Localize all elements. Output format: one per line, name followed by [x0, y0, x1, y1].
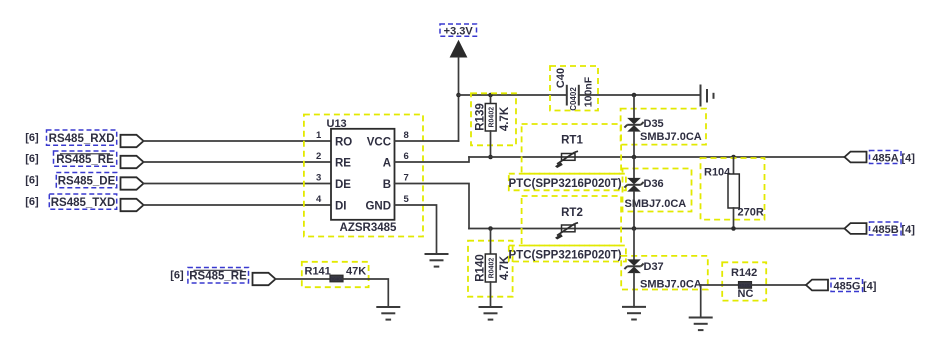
svg-text:4.7K: 4.7K	[499, 255, 511, 280]
wire B line to R140	[490, 229, 492, 255]
svg-text:RS485_RXD: RS485_RXD	[49, 133, 115, 145]
ground below U13 pin 5	[425, 254, 449, 267]
wire RS485_RXD to U13 pin 1	[144, 140, 332, 142]
resistor R140 body	[485, 254, 496, 282]
TVS diode D36 highlight box	[623, 169, 692, 212]
node 485B net label	[870, 222, 902, 236]
wire A line to port 485A	[469, 156, 845, 158]
resistor R141 body	[330, 275, 343, 282]
junction R139 top	[488, 93, 493, 98]
svg-text:485G: 485G	[834, 281, 861, 293]
svg-text:RS485_RE: RS485_RE	[56, 154, 114, 166]
node 485G net label	[831, 279, 863, 293]
PTC RT1 label box	[509, 174, 626, 191]
svg-text:[6]: [6]	[170, 270, 184, 282]
svg-text:A: A	[383, 158, 391, 170]
svg-text:6: 6	[404, 151, 409, 162]
wire R142 to port 485G	[752, 284, 807, 286]
svg-text:47K: 47K	[346, 266, 366, 278]
svg-text:PTC(SPP3216P020T): PTC(SPP3216P020T)	[509, 250, 622, 262]
op-amp U13 highlight box	[304, 115, 423, 237]
wire rail to R139	[490, 95, 492, 104]
wire R141 to ground	[343, 279, 388, 307]
svg-text:4.7K: 4.7K	[499, 106, 511, 131]
wire U13 pin 5 GND	[395, 205, 437, 254]
PTC thermistor RT2 symbol	[555, 223, 578, 240]
resistor R139 body	[485, 104, 496, 132]
junction D36/D37 on B line	[632, 226, 637, 231]
TVS diode D36 symbol	[624, 178, 643, 192]
svg-text:R139: R139	[475, 103, 487, 131]
wire U13 pin 8 VCC	[395, 140, 459, 142]
PTC RT2 label box	[509, 246, 626, 262]
svg-text:AZSR3485: AZSR3485	[340, 222, 397, 234]
capacitor C40 plates	[567, 85, 579, 106]
svg-text:[6]: [6]	[25, 153, 39, 165]
svg-text:RE: RE	[335, 158, 351, 170]
port RS485_RXD connector pentagon	[121, 135, 144, 147]
node RS485_DE net label	[56, 173, 116, 188]
svg-text:485A: 485A	[872, 153, 898, 165]
node 485A net label	[870, 151, 902, 165]
PTC RT1 highlight box	[522, 124, 622, 174]
svg-text:RS485_TXD: RS485_TXD	[51, 197, 116, 209]
PTC RT2 highlight box	[522, 196, 622, 246]
svg-text:7: 7	[404, 173, 409, 184]
svg-text:GND: GND	[365, 201, 391, 213]
junction R140 top on B line	[488, 226, 493, 231]
svg-text:5: 5	[404, 194, 410, 205]
svg-text:C40: C40	[555, 68, 567, 88]
node RS485_TXD net label	[49, 194, 116, 209]
power +3.3V net label	[440, 24, 477, 37]
svg-text:[6]: [6]	[25, 132, 39, 144]
svg-text:270R: 270R	[738, 207, 764, 219]
svg-text:+3.3V: +3.3V	[444, 25, 474, 37]
svg-text:D35: D35	[644, 118, 664, 130]
TVS diode D35 highlight box	[621, 109, 706, 145]
svg-text:R140: R140	[475, 254, 487, 282]
wire D36 to B line	[633, 192, 635, 229]
wire R140 to ground	[490, 282, 492, 307]
power +3.3V bar triangle	[450, 40, 468, 58]
TVS diode D35 symbol	[624, 118, 643, 132]
svg-text:R0402: R0402	[330, 276, 344, 281]
svg-text:485B: 485B	[872, 224, 898, 236]
svg-text:VCC: VCC	[367, 137, 391, 149]
port RS485_RE (pulldown) connector pentagon	[253, 273, 276, 285]
port 485B connector pentagon	[845, 223, 867, 234]
svg-text:3: 3	[316, 173, 321, 184]
svg-text:RT2: RT2	[561, 207, 583, 219]
svg-text:DI: DI	[335, 201, 347, 213]
svg-text:NC: NC	[738, 288, 754, 300]
TVS diode D37 symbol	[624, 259, 643, 273]
resistor R104 highlight box	[701, 158, 765, 220]
junction R104 bottom on B line	[731, 226, 736, 231]
svg-text:D37: D37	[644, 261, 664, 273]
ground (rotated right) at rail end	[701, 85, 714, 107]
TVS diode D37 highlight box	[621, 256, 708, 290]
IC U13 AZSR3485 body	[331, 129, 395, 220]
wire B line to port 485B	[469, 228, 845, 230]
node RS485_RE (pulldown) net label	[188, 268, 249, 284]
ground below 485G net	[689, 318, 713, 331]
junction D35/D36 on A line	[632, 155, 637, 160]
port 485A connector pentagon	[845, 152, 867, 163]
wire R104 to B line	[733, 208, 735, 229]
svg-text:U13: U13	[327, 118, 347, 130]
junction R104 top on A line	[731, 155, 736, 160]
wire D37 to ground	[633, 273, 635, 307]
port 485G connector pentagon	[806, 280, 828, 291]
node RS485_RE net label (active-low overline)	[54, 151, 117, 166]
wire RS485_RE to R141	[276, 278, 331, 280]
junction +3.3V rail tap	[456, 93, 461, 98]
resistor R142 highlight box	[722, 262, 766, 300]
resistor R104 body	[728, 174, 739, 208]
resistor R139 highlight box	[471, 93, 516, 145]
resistor R141 highlight box	[302, 262, 369, 287]
wire RS485_TXD to U13 pin 4	[144, 204, 332, 206]
svg-text:1: 1	[316, 130, 322, 141]
svg-text:[6]: [6]	[25, 175, 39, 187]
svg-text:SMBJ7.0CA: SMBJ7.0CA	[640, 279, 702, 291]
resistor R140 highlight box	[468, 241, 513, 297]
svg-text:[4]: [4]	[902, 224, 916, 236]
svg-text:RT1: RT1	[561, 135, 583, 147]
svg-text:DE: DE	[335, 179, 351, 191]
wire U13 pin 7 B	[395, 184, 470, 229]
wire 3.3V rail right segment to ground	[579, 94, 701, 96]
wire A line to D36	[633, 157, 635, 178]
ground below R141	[376, 307, 400, 320]
svg-text:[6]: [6]	[25, 196, 39, 208]
wire 3.3V rail left segment	[459, 94, 567, 96]
capacitor C40 highlight box	[550, 66, 598, 111]
node RS485_RXD net label	[47, 130, 117, 145]
svg-text:R0402: R0402	[488, 258, 495, 279]
svg-text:RO: RO	[335, 137, 352, 149]
svg-text:4: 4	[316, 194, 322, 205]
svg-text:100nF: 100nF	[583, 76, 595, 107]
wire A line to R104	[733, 157, 735, 174]
junction R139 bottom on A line	[488, 155, 493, 160]
ground below D37	[622, 307, 646, 320]
wire B line to D37	[633, 229, 635, 260]
wire 485G ground corner to R142	[701, 284, 739, 286]
wire rail to D35	[633, 95, 635, 118]
junction D35 top	[632, 93, 637, 98]
svg-text:[4]: [4]	[863, 281, 877, 293]
svg-text:B: B	[383, 179, 391, 191]
svg-text:R142: R142	[731, 267, 757, 279]
wire U13 pin 6 A	[395, 157, 470, 162]
wire +3.3V vertical to VCC	[458, 58, 460, 142]
wire RS485_RE to U13 pin 2	[144, 161, 332, 163]
svg-text:D36: D36	[644, 178, 664, 190]
resistor R142 body	[739, 282, 752, 289]
svg-text:[4]: [4]	[902, 153, 916, 165]
port RS485_RE connector pentagon	[121, 156, 144, 168]
wire RS485_DE to U13 pin 3	[144, 183, 332, 185]
port RS485_TXD connector pentagon	[121, 199, 144, 211]
svg-text:R104: R104	[704, 167, 731, 179]
ground below R140	[479, 307, 503, 320]
port RS485_DE connector pentagon	[121, 177, 144, 189]
svg-text:8: 8	[404, 130, 409, 141]
svg-text:R0402: R0402	[488, 107, 495, 128]
svg-text:2: 2	[316, 151, 321, 162]
wire R139 to A line	[490, 131, 492, 157]
svg-text:SMBJ7.0CA: SMBJ7.0CA	[640, 131, 702, 143]
svg-text:RS485_DE: RS485_DE	[58, 176, 116, 188]
PTC thermistor RT1 symbol	[555, 151, 578, 168]
wire 485G net to ground	[700, 285, 702, 318]
wire D35 to A line	[633, 132, 635, 157]
svg-text:PTC(SPP3216P020T): PTC(SPP3216P020T)	[509, 178, 622, 190]
svg-text:C0402: C0402	[569, 87, 578, 111]
svg-text:R141: R141	[305, 266, 331, 278]
svg-text:RS485_RE: RS485_RE	[189, 271, 247, 283]
